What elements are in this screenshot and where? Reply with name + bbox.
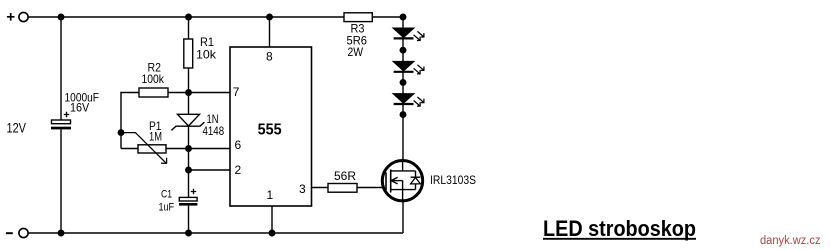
svg-text:56R: 56R <box>334 169 356 183</box>
svg-text:2W: 2W <box>348 45 364 59</box>
node diode / P1 / pin 6 junction <box>185 145 192 152</box>
node bottom rail / capacitor branch <box>58 230 65 237</box>
node R1 / R2 / pin 7 junction <box>185 89 192 96</box>
wire R1 top lead <box>188 17 190 39</box>
svg-text:3: 3 <box>299 182 306 196</box>
wire LED column (top rail corner down to MOSFET drain) <box>402 17 404 161</box>
LED 3 light arrows <box>414 97 424 106</box>
LED 2 <box>393 61 414 71</box>
wire R1 bottom lead <box>188 68 190 93</box>
svg-text:1M: 1M <box>149 130 162 144</box>
wire diode vertical (pin7 node to pin6 node) <box>188 93 190 149</box>
capacitor 1000uF electrolytic <box>51 112 71 130</box>
wire C1 bottom lead <box>188 206 190 233</box>
LED 3 <box>393 94 414 104</box>
transistor Q1 MOSFET IRL3103S <box>382 161 422 201</box>
title LED stroboskop <box>543 216 696 241</box>
LED 1 light arrows <box>414 31 424 40</box>
op-amp/timer U1 555 box <box>230 47 312 206</box>
node top rail / capacitor branch <box>58 14 65 21</box>
node pin 2 tap <box>185 167 192 174</box>
svg-text:6: 6 <box>235 138 242 152</box>
svg-text:2: 2 <box>235 163 242 177</box>
node pin 1 / bottom rail <box>269 230 276 237</box>
wire bottom rail <box>28 232 403 234</box>
wire filter capacitor bottom lead <box>60 129 62 233</box>
wire top rail right (R3 to LED column) <box>372 16 403 18</box>
wire pin 6 row (left branch to 555 pin 6) <box>121 148 230 150</box>
potentiometer P1 <box>121 133 167 164</box>
capacitor C1 electrolytic <box>179 189 197 206</box>
node wiper tap on left branch <box>118 129 125 136</box>
svg-text:16V: 16V <box>70 101 89 115</box>
node top rail / R1 branch <box>185 14 192 21</box>
svg-text:4148: 4148 <box>203 124 225 138</box>
svg-text:1uF: 1uF <box>159 202 175 214</box>
wire gate lead (56R to MOSFET gate) <box>357 187 386 189</box>
wire top rail left (terminal to R3) <box>28 16 344 18</box>
svg-text:12V: 12V <box>7 121 27 136</box>
node LED2/LED3 junction <box>400 79 407 86</box>
wire pin 8 lead <box>269 17 271 47</box>
resistor R3 body <box>344 13 372 22</box>
svg-text:100k: 100k <box>142 72 165 86</box>
svg-text:1: 1 <box>267 188 274 202</box>
node LED1/LED2 junction <box>400 47 407 54</box>
node top rail / pin 8 branch <box>266 14 273 21</box>
LED 1 <box>393 28 414 38</box>
node top rail / LED column corner <box>400 14 407 21</box>
svg-text:IRL3103S: IRL3103S <box>430 173 476 187</box>
svg-text:danyk.wz.cz: danyk.wz.cz <box>760 235 821 247</box>
terminal + (positive input) <box>7 12 28 21</box>
wire C1 top lead (pin6 node down to C1) <box>188 149 190 198</box>
resistor R1 body <box>184 39 193 68</box>
svg-text:10k: 10k <box>196 48 217 62</box>
resistor 56R body <box>328 184 357 193</box>
svg-text:7: 7 <box>233 85 240 99</box>
resistor R2 body <box>139 88 168 97</box>
wire filter capacitor top lead <box>60 17 62 120</box>
node LED3 bottom junction <box>400 111 407 118</box>
terminal - (negative input) <box>6 228 28 237</box>
wire MOSFET source to bottom rail <box>402 201 404 233</box>
wire R2 left lead and left branch down <box>121 93 139 149</box>
wire pin 2 row <box>189 169 231 171</box>
LED 2 light arrows <box>414 65 424 74</box>
diode 1N4148 <box>171 114 204 130</box>
wire R2 right to 555 pin 7 <box>168 92 230 94</box>
svg-text:555: 555 <box>258 121 282 138</box>
wire 555 pin 3 to 56R <box>312 187 329 189</box>
svg-text:8: 8 <box>266 50 273 64</box>
wire pin 1 lead <box>271 206 273 233</box>
svg-text:C1: C1 <box>161 189 172 201</box>
node bottom rail / C1 branch <box>185 230 192 237</box>
svg-text:LED stroboskop: LED stroboskop <box>543 216 696 241</box>
